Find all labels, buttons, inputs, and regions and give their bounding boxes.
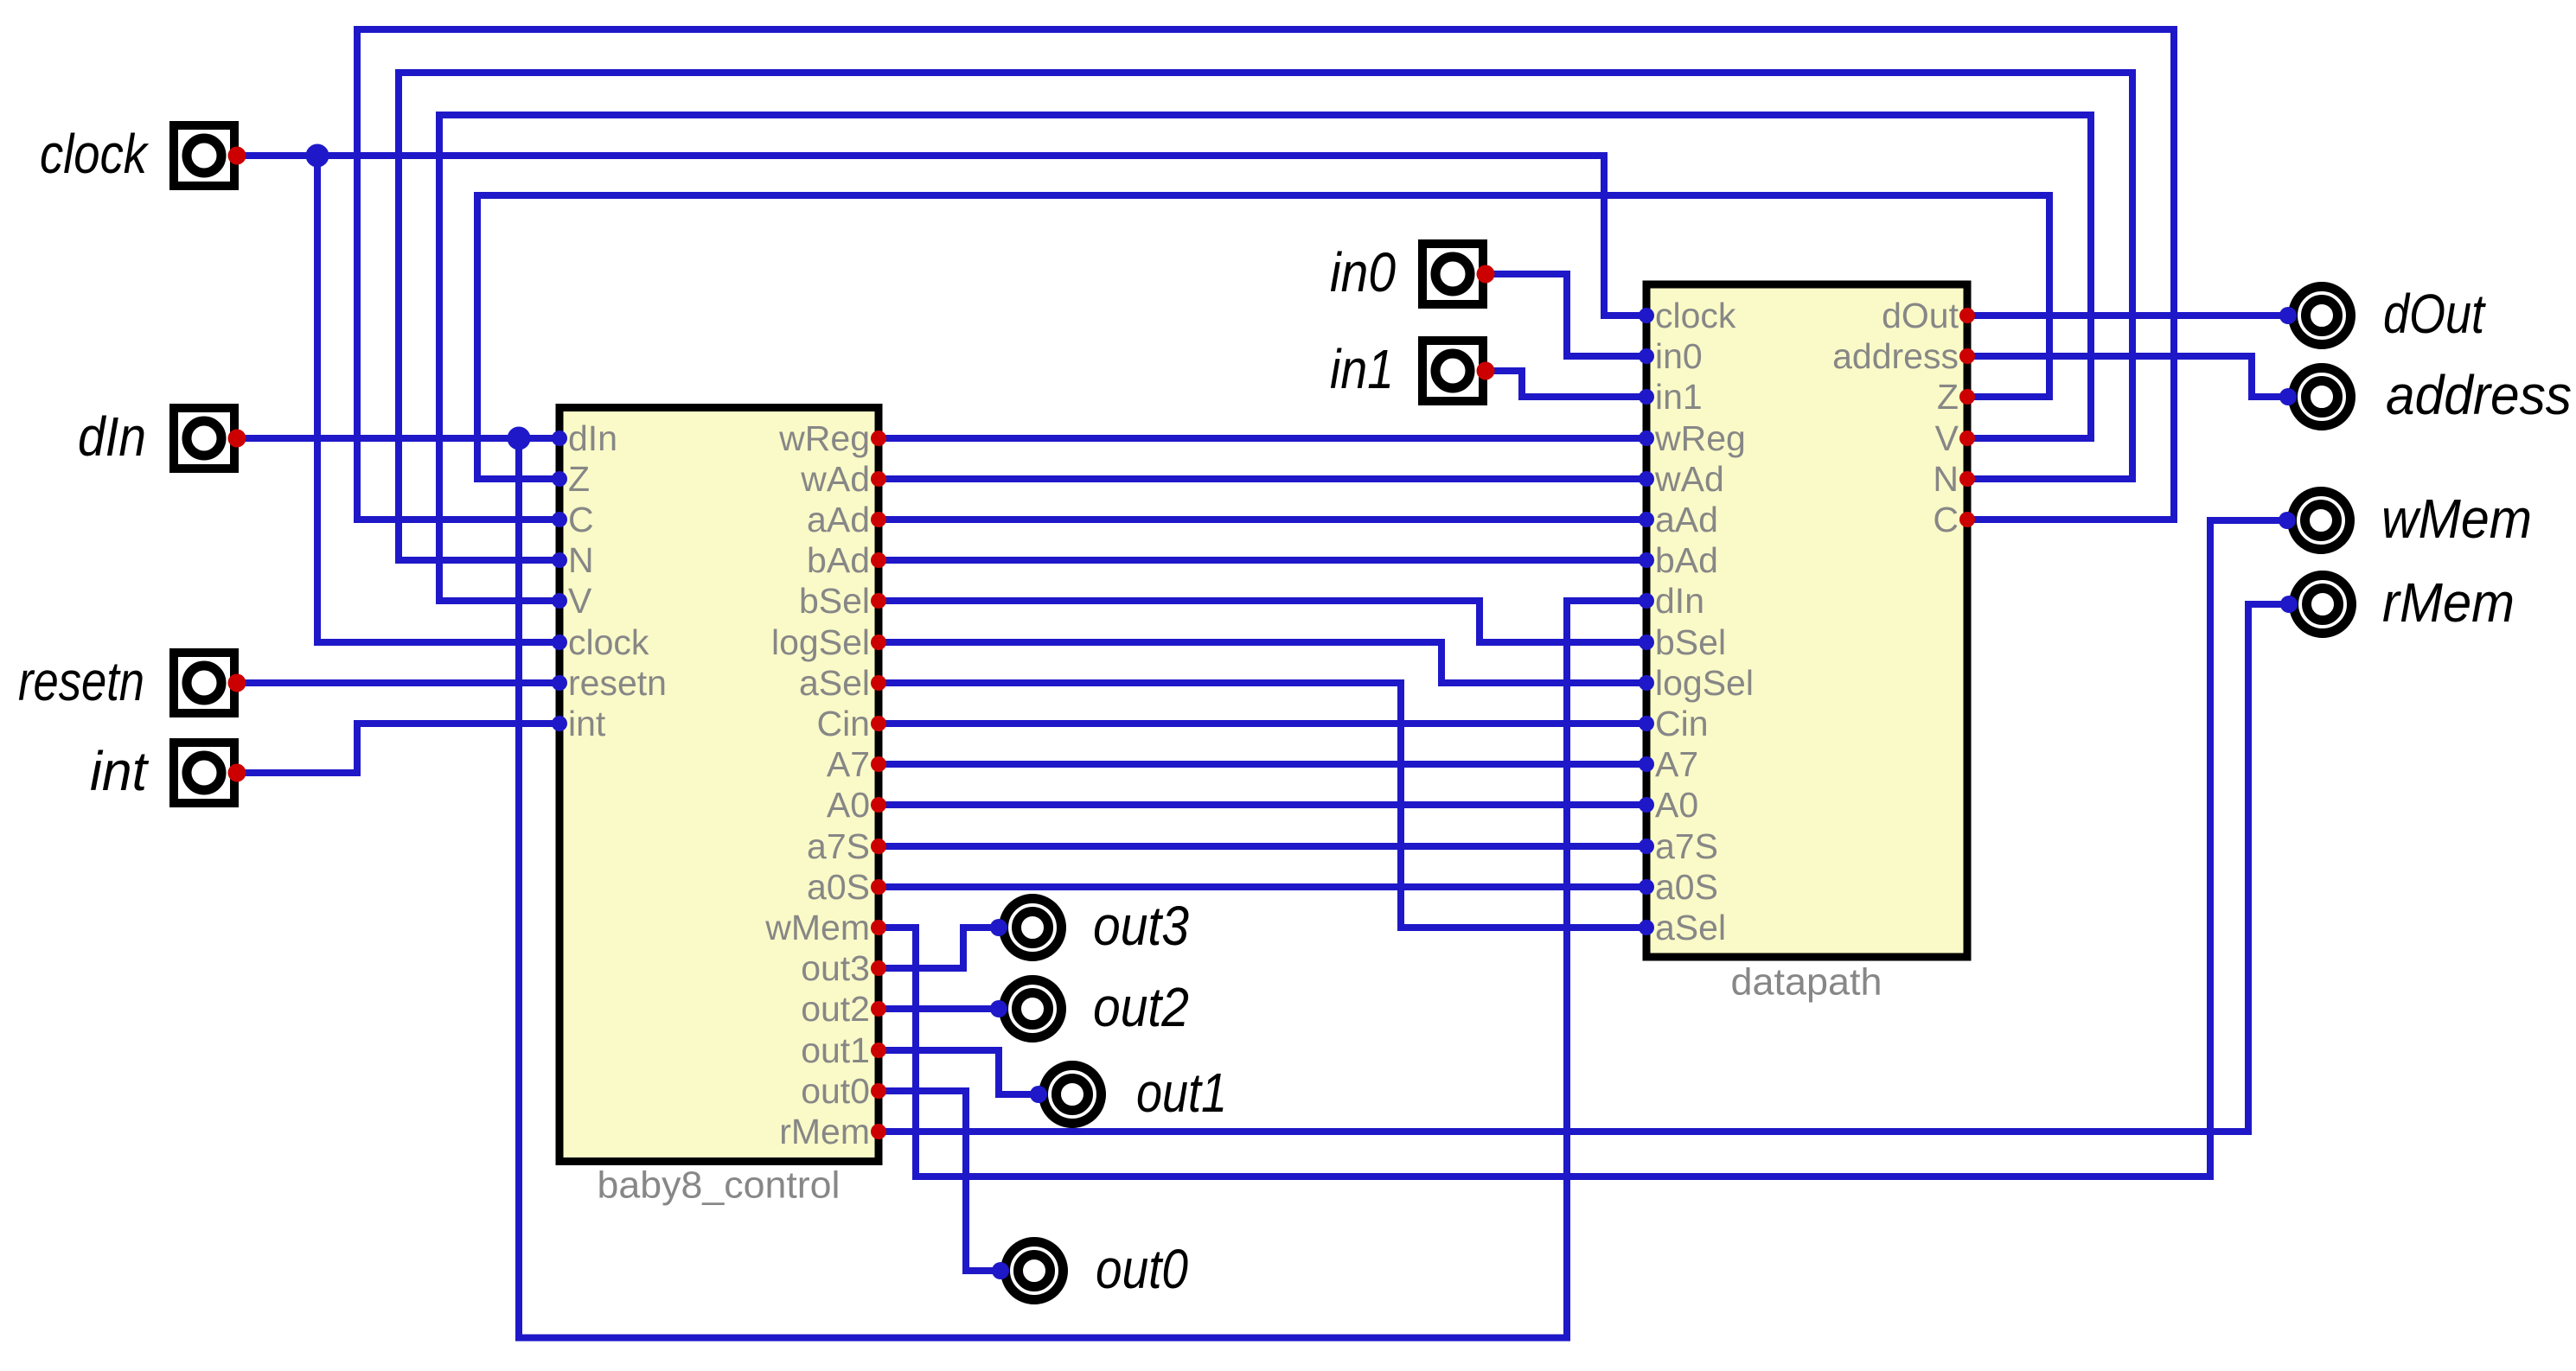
- pin N: [1933, 459, 1975, 499]
- svg-text:dIn: dIn: [568, 418, 617, 458]
- svg-text:bSel: bSel: [799, 581, 870, 621]
- wire net clock branch to baby8_control clock pin: [317, 156, 559, 642]
- pin bSel: [799, 581, 886, 621]
- pin a7S: [807, 826, 886, 866]
- wire net in0: [1485, 274, 1646, 356]
- svg-text:wAd: wAd: [800, 459, 870, 499]
- svg-text:logSel: logSel: [771, 622, 870, 662]
- svg-text:wReg: wReg: [1654, 418, 1746, 458]
- pin wAd: [800, 459, 886, 499]
- svg-text:Cin: Cin: [816, 704, 870, 743]
- svg-text:A7: A7: [1655, 744, 1698, 784]
- svg-text:baby8_control: baby8_control: [598, 1164, 841, 1207]
- block datapath: [1646, 284, 1967, 957]
- svg-text:aAd: aAd: [1655, 500, 1718, 539]
- pin int: [552, 704, 606, 743]
- pin N: [552, 540, 594, 580]
- wire net a7S: [879, 843, 1646, 850]
- svg-text:aSel: aSel: [799, 663, 870, 703]
- output port wMem: [2279, 492, 2350, 550]
- wire net clock: port to datapath clock pin: [236, 156, 1646, 316]
- svg-text:resetn: resetn: [18, 650, 144, 712]
- pin dOut: [1882, 296, 1975, 335]
- wire net wReg: [879, 435, 1646, 442]
- svg-text:address: address: [1832, 336, 1959, 376]
- svg-text:rMem: rMem: [779, 1112, 870, 1151]
- pin a7S: [1639, 826, 1718, 866]
- wire net Cin: [879, 720, 1646, 727]
- block baby8_control: [559, 408, 879, 1162]
- svg-text:a7S: a7S: [1655, 826, 1718, 866]
- svg-text:wMem: wMem: [2381, 488, 2532, 550]
- pin wReg: [778, 418, 886, 458]
- wire net V: datapath V to baby8_control V: [439, 115, 2091, 601]
- svg-text:aAd: aAd: [807, 500, 870, 539]
- svg-text:out1: out1: [1136, 1062, 1227, 1124]
- pin C: [552, 500, 594, 539]
- wire net Z: datapath Z to baby8_control Z: [477, 195, 2049, 479]
- svg-text:dOut: dOut: [1882, 296, 1959, 335]
- svg-text:datapath: datapath: [1731, 961, 1882, 1004]
- input port clock: [174, 125, 246, 186]
- wire net resetn: [236, 679, 559, 686]
- svg-text:A7: A7: [827, 744, 870, 784]
- output port out0: [992, 1242, 1064, 1300]
- svg-text:bAd: bAd: [1655, 540, 1718, 580]
- svg-text:aSel: aSel: [1655, 908, 1726, 947]
- svg-text:A0: A0: [827, 785, 870, 825]
- pin logSel: [1639, 663, 1754, 703]
- wire net wMem: [879, 520, 2287, 1177]
- svg-text:V: V: [568, 581, 592, 621]
- pin V: [1935, 418, 1975, 458]
- wire net aSel: [879, 683, 1646, 928]
- wire net bAd: [879, 557, 1646, 564]
- wire net out0: [879, 1091, 1000, 1271]
- pin aSel: [1639, 908, 1726, 947]
- svg-text:out0: out0: [801, 1071, 870, 1111]
- svg-text:a0S: a0S: [1655, 867, 1718, 907]
- wire net int: [236, 724, 559, 773]
- pin in0: [1639, 336, 1703, 376]
- pin clock: [1639, 296, 1736, 335]
- svg-text:out3: out3: [801, 948, 870, 988]
- pin clock: [552, 622, 649, 662]
- svg-text:rMem: rMem: [2382, 571, 2515, 634]
- pin aAd: [1639, 500, 1718, 539]
- svg-text:C: C: [568, 500, 594, 539]
- svg-text:int: int: [568, 704, 606, 743]
- svg-text:clock: clock: [40, 123, 150, 185]
- output port out3: [990, 899, 1062, 957]
- wire net a0S: [879, 883, 1646, 890]
- svg-text:bSel: bSel: [1655, 622, 1726, 662]
- svg-text:out1: out1: [801, 1030, 870, 1070]
- pin dIn: [552, 418, 617, 458]
- pin out0: [801, 1071, 886, 1111]
- svg-text:in0: in0: [1330, 241, 1396, 303]
- svg-text:wMem: wMem: [764, 908, 870, 947]
- pin dIn: [1639, 581, 1704, 621]
- pin address: [1832, 336, 1975, 376]
- svg-text:out3: out3: [1093, 895, 1189, 957]
- svg-text:in1: in1: [1655, 377, 1703, 417]
- wire net rMem: [879, 604, 2289, 1132]
- svg-text:logSel: logSel: [1655, 663, 1754, 703]
- pin in1: [1639, 377, 1703, 417]
- pin Z: [552, 459, 590, 499]
- pin Z: [1937, 377, 1975, 417]
- pin A7: [827, 744, 886, 784]
- pin out3: [801, 948, 886, 988]
- output port dOut: [2279, 287, 2351, 345]
- output port out2: [990, 980, 1062, 1038]
- junction node clock: [306, 144, 329, 168]
- svg-text:bAd: bAd: [807, 540, 870, 580]
- wire net wAd: [879, 475, 1646, 482]
- svg-text:int: int: [90, 740, 149, 802]
- pin C: [1933, 500, 1975, 539]
- wire net A7: [879, 761, 1646, 768]
- output port address: [2279, 368, 2351, 426]
- svg-text:in0: in0: [1655, 336, 1703, 376]
- pin wReg: [1639, 418, 1746, 458]
- svg-text:Z: Z: [568, 459, 590, 499]
- svg-text:out0: out0: [1096, 1238, 1188, 1300]
- svg-text:dIn: dIn: [1655, 581, 1704, 621]
- svg-text:N: N: [568, 540, 594, 580]
- svg-text:clock: clock: [568, 622, 649, 662]
- wire net N: datapath N to baby8_control N: [399, 73, 2132, 560]
- wire net dIn: port to baby8_control dIn pin: [236, 435, 559, 442]
- wire net aAd: [879, 516, 1646, 523]
- wire net out2: [879, 1005, 999, 1012]
- svg-text:a7S: a7S: [807, 826, 870, 866]
- wire net dOut: [1967, 312, 2288, 319]
- input port int: [174, 743, 246, 803]
- pin out2: [801, 989, 886, 1029]
- pin Cin: [1639, 704, 1709, 743]
- pin logSel: [771, 622, 886, 662]
- pin aSel: [799, 663, 886, 703]
- svg-text:dOut: dOut: [2383, 283, 2486, 345]
- svg-text:out2: out2: [1093, 976, 1189, 1038]
- input port dIn: [174, 408, 246, 469]
- svg-text:in1: in1: [1330, 338, 1394, 400]
- pin rMem: [779, 1112, 886, 1151]
- pin aAd: [807, 500, 886, 539]
- svg-text:Cin: Cin: [1655, 704, 1709, 743]
- svg-text:dIn: dIn: [78, 405, 146, 468]
- pin A0: [1639, 785, 1698, 825]
- pin a0S: [1639, 867, 1718, 907]
- pin A0: [827, 785, 886, 825]
- wire net out1: [879, 1050, 1039, 1094]
- svg-text:a0S: a0S: [807, 867, 870, 907]
- pin wAd: [1639, 459, 1724, 499]
- pin Cin: [816, 704, 886, 743]
- wire net C: datapath C to baby8_control C: [357, 29, 2174, 520]
- pin wMem: [764, 908, 886, 947]
- pin a0S: [807, 867, 886, 907]
- svg-text:V: V: [1935, 418, 1959, 458]
- pin resetn: [552, 663, 667, 703]
- svg-text:clock: clock: [1655, 296, 1736, 335]
- svg-text:out2: out2: [801, 989, 870, 1029]
- svg-text:address: address: [2386, 364, 2572, 426]
- svg-text:N: N: [1933, 459, 1959, 499]
- input port resetn: [174, 653, 246, 713]
- svg-text:wReg: wReg: [778, 418, 870, 458]
- pin bAd: [1639, 540, 1718, 580]
- output port rMem: [2280, 576, 2352, 634]
- output port out1: [1030, 1066, 1102, 1124]
- input port in1: [1422, 341, 1495, 401]
- svg-text:C: C: [1933, 500, 1959, 539]
- wire net in1: [1485, 371, 1646, 397]
- svg-text:A0: A0: [1655, 785, 1698, 825]
- svg-text:resetn: resetn: [568, 663, 667, 703]
- pin bSel: [1639, 622, 1726, 662]
- wire net bSel: [879, 601, 1646, 642]
- pin bAd: [807, 540, 886, 580]
- junction node dIn: [508, 427, 531, 450]
- wire net address: [1967, 356, 2288, 397]
- pin V: [552, 581, 592, 621]
- pin A7: [1639, 744, 1698, 784]
- pin out1: [801, 1030, 886, 1070]
- wire net A0: [879, 801, 1646, 808]
- wire net dIn branch to datapath dIn pin: [519, 438, 1646, 1338]
- svg-text:Z: Z: [1937, 377, 1959, 417]
- wire net out3: [879, 928, 999, 968]
- wire net logSel: [879, 642, 1646, 683]
- input port in0: [1422, 244, 1495, 304]
- svg-text:wAd: wAd: [1654, 459, 1724, 499]
